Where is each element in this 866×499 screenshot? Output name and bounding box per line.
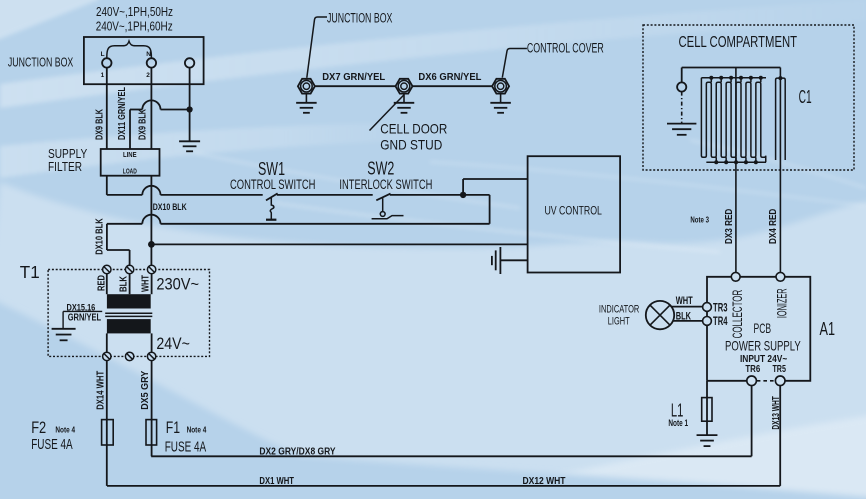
svg-text:Note 3: Note 3: [690, 214, 709, 224]
svg-text:DX1 WHT: DX1 WHT: [259, 475, 294, 487]
svg-text:T1: T1: [20, 262, 40, 282]
svg-text:INPUT 24V~: INPUT 24V~: [740, 354, 788, 365]
svg-text:DX9 BLK: DX9 BLK: [138, 108, 149, 140]
svg-text:DX12 WHT: DX12 WHT: [523, 475, 566, 487]
svg-text:FILTER: FILTER: [48, 159, 82, 174]
svg-text:DX14 WHT: DX14 WHT: [95, 371, 106, 410]
svg-text:LINE: LINE: [123, 152, 137, 159]
svg-text:DX10 BLK: DX10 BLK: [153, 202, 187, 213]
svg-text:INTERLOCK SWITCH: INTERLOCK SWITCH: [339, 177, 432, 192]
svg-text:CELL COMPARTMENT: CELL COMPARTMENT: [679, 34, 798, 51]
svg-text:CONTROL SWITCH: CONTROL SWITCH: [230, 177, 316, 192]
svg-text:DX2 GRY/DX8 GRY: DX2 GRY/DX8 GRY: [259, 446, 335, 458]
svg-text:1: 1: [101, 72, 105, 79]
svg-text:Note 4: Note 4: [55, 424, 75, 434]
svg-text:230V~: 230V~: [156, 274, 199, 293]
svg-text:WHT: WHT: [676, 295, 693, 307]
svg-text:F2: F2: [31, 418, 46, 437]
svg-text:DX9 BLK: DX9 BLK: [95, 108, 106, 140]
svg-text:LIGHT: LIGHT: [608, 316, 630, 328]
svg-text:F1: F1: [166, 418, 180, 437]
svg-text:DX7 GRN/YEL: DX7 GRN/YEL: [322, 71, 386, 83]
svg-text:INDICATOR: INDICATOR: [599, 304, 640, 316]
svg-text:POWER SUPPLY: POWER SUPPLY: [725, 339, 801, 354]
svg-text:DX3 RED: DX3 RED: [724, 209, 735, 244]
svg-text:BLK: BLK: [117, 276, 129, 292]
svg-text:SW2: SW2: [367, 158, 394, 179]
svg-text:2: 2: [146, 72, 150, 79]
svg-text:DX6 GRN/YEL: DX6 GRN/YEL: [418, 71, 482, 83]
svg-text:TR5: TR5: [772, 364, 786, 375]
svg-text:24V~: 24V~: [156, 334, 190, 353]
svg-text:240V~,1PH,60Hz: 240V~,1PH,60Hz: [96, 18, 173, 33]
svg-text:DX4 RED: DX4 RED: [768, 209, 779, 244]
svg-text:C1: C1: [799, 86, 812, 107]
svg-text:TR4: TR4: [713, 314, 728, 328]
svg-text:SW1: SW1: [258, 158, 285, 179]
svg-text:FUSE 4A: FUSE 4A: [165, 439, 207, 456]
svg-text:TR3: TR3: [713, 300, 728, 314]
svg-text:A1: A1: [820, 318, 836, 339]
svg-text:DX5 GRY: DX5 GRY: [140, 371, 151, 410]
svg-text:Note 1: Note 1: [668, 418, 688, 428]
svg-text:TR6: TR6: [745, 364, 760, 375]
svg-text:FUSE 4A: FUSE 4A: [31, 436, 73, 453]
svg-text:Note 4: Note 4: [187, 424, 207, 434]
svg-text:240V~,1PH,50Hz: 240V~,1PH,50Hz: [96, 4, 173, 19]
svg-text:LOAD: LOAD: [123, 169, 137, 176]
svg-text:GND STUD: GND STUD: [380, 137, 442, 153]
svg-text:JUNCTION BOX: JUNCTION BOX: [327, 11, 392, 26]
svg-text:RED: RED: [95, 275, 107, 291]
svg-text:JUNCTION BOX: JUNCTION BOX: [8, 56, 74, 70]
svg-text:CONTROL COVER: CONTROL COVER: [527, 40, 604, 55]
svg-text:IONIZER: IONIZER: [775, 288, 790, 318]
svg-text:DX13 WHT: DX13 WHT: [771, 396, 782, 429]
svg-text:BLK: BLK: [676, 311, 692, 323]
svg-text:COLLECTOR: COLLECTOR: [730, 290, 745, 339]
svg-text:CELL DOOR: CELL DOOR: [380, 121, 447, 137]
svg-text:L: L: [101, 51, 105, 58]
svg-text:DX11 GRN/YEL: DX11 GRN/YEL: [117, 87, 128, 140]
svg-text:GRN/YEL: GRN/YEL: [68, 313, 101, 324]
svg-text:WHT: WHT: [139, 275, 151, 292]
svg-text:PCB: PCB: [754, 321, 772, 336]
svg-text:DX10 BLK: DX10 BLK: [94, 218, 105, 255]
svg-text:UV CONTROL: UV CONTROL: [544, 203, 602, 217]
